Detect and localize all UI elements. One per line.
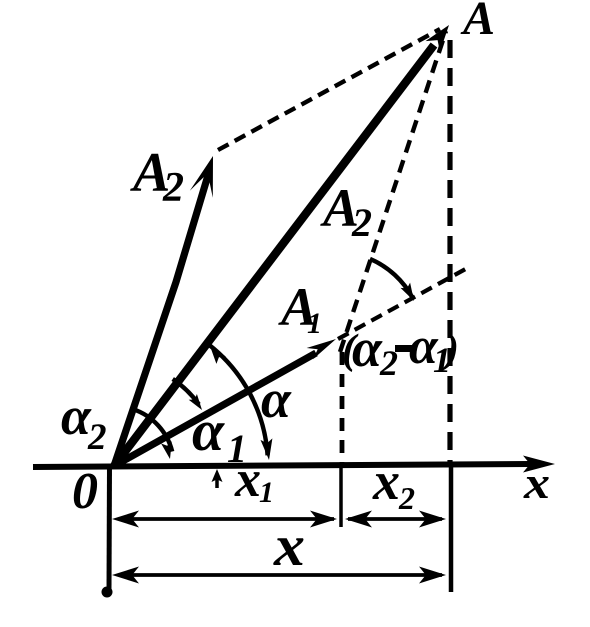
svg-text:x: x [273, 513, 305, 578]
svg-text:2: 2 [87, 417, 107, 458]
svg-text:2: 2 [162, 165, 184, 211]
svg-text:α: α [352, 318, 383, 378]
svg-text:2: 2 [351, 200, 372, 245]
svg-text:x: x [372, 451, 400, 511]
svg-text:x: x [234, 451, 261, 508]
svg-text:A: A [460, 0, 495, 45]
svg-text:1: 1 [259, 476, 274, 509]
svg-text:x: x [523, 458, 550, 508]
svg-text:α: α [192, 398, 225, 463]
svg-text:α: α [261, 369, 292, 429]
svg-text:1: 1 [307, 307, 322, 340]
svg-text:2: 2 [398, 480, 415, 516]
svg-text:0: 0 [72, 463, 98, 520]
